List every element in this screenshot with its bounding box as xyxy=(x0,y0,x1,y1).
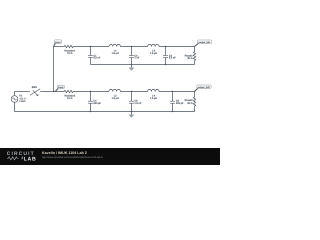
svg-text:2.2 nF: 2.2 nF xyxy=(169,57,176,60)
svg-text:output_lpf1: output_lpf1 xyxy=(198,41,210,43)
resistor Rload1 50 Ohm xyxy=(193,52,195,61)
svg-text:C4: C4 xyxy=(93,99,96,102)
capacitor C2 1 nF xyxy=(131,47,133,56)
wire xyxy=(41,91,64,93)
node dot xyxy=(165,46,166,47)
svg-text:output_lpf2: output_lpf2 xyxy=(198,86,210,88)
capacitor C5 1.5 nF xyxy=(131,92,133,102)
svg-text:2.2 nF: 2.2 nF xyxy=(93,57,100,60)
footer bar xyxy=(0,148,220,165)
wire xyxy=(15,91,29,93)
wire xyxy=(54,46,65,48)
wire xyxy=(194,61,196,65)
inductor L4 1.5 uH xyxy=(148,89,159,91)
svg-text:1.5 µH: 1.5 µH xyxy=(150,97,157,100)
svg-text:1.5 nF: 1.5 nF xyxy=(134,102,141,105)
svg-text:C5: C5 xyxy=(134,99,137,102)
svg-text:Rload2: Rload2 xyxy=(185,99,193,102)
capacitor C1 2.2 nF xyxy=(90,47,92,56)
wire xyxy=(194,47,196,52)
wire xyxy=(120,91,147,93)
svg-text:CIRCUIT: CIRCUIT xyxy=(7,151,35,157)
node dot xyxy=(90,46,91,47)
node flag input (row 1) xyxy=(54,43,56,47)
CircuitLab logo: resistor zigzag xyxy=(7,157,18,160)
svg-text:10 Ω: 10 Ω xyxy=(67,97,72,100)
svg-text:LAB: LAB xyxy=(24,156,37,162)
node dot xyxy=(165,64,166,65)
resistor Resistor1 10 Ohm xyxy=(64,45,73,47)
svg-text:50 Ω: 50 Ω xyxy=(187,102,192,105)
wire xyxy=(120,46,147,48)
wire xyxy=(14,102,16,111)
svg-text:1.5 µH: 1.5 µH xyxy=(112,97,119,100)
wire xyxy=(14,92,16,96)
CircuitLab logo: bolt mark xyxy=(21,157,23,160)
wire xyxy=(194,92,196,98)
ground (row 2) xyxy=(131,112,133,115)
svg-text:input: input xyxy=(55,41,61,43)
node dot xyxy=(172,91,173,92)
inductor L3 1.5 uH xyxy=(109,89,120,91)
wire: input link line between rows xyxy=(53,47,55,92)
svg-text:1 kHz: 1 kHz xyxy=(19,100,25,103)
capacitor C4 220 pF xyxy=(90,92,92,102)
node flag input (row 2) xyxy=(55,88,58,91)
svg-text:220 pF: 220 pF xyxy=(176,102,184,105)
svg-text:220 pF: 220 pF xyxy=(93,102,101,105)
svg-text:V1: V1 xyxy=(19,95,22,98)
wire xyxy=(73,91,109,93)
inductor L2 1.5 uH xyxy=(148,44,159,46)
wire: row2 ground rail xyxy=(15,111,195,113)
node dot xyxy=(172,111,173,112)
node flag output2 (row 2) xyxy=(195,88,199,91)
svg-text:SW1: SW1 xyxy=(32,86,37,89)
wire xyxy=(159,46,195,48)
switch SW1 xyxy=(29,91,30,92)
svg-text:10 Ω: 10 Ω xyxy=(67,52,72,55)
svg-text:50 Ω: 50 Ω xyxy=(187,57,192,60)
resistor Resistor2 10 Ohm xyxy=(64,90,73,92)
node dot xyxy=(131,64,132,65)
wire xyxy=(159,91,195,93)
svg-text:1 nF: 1 nF xyxy=(134,57,139,60)
resistor Rload2 50 Ohm xyxy=(193,97,195,106)
node dot xyxy=(90,91,91,92)
svg-text:1.5 µH: 1.5 µH xyxy=(112,52,119,55)
inductor L1 1.5 uH xyxy=(109,44,120,46)
wire xyxy=(73,46,109,48)
svg-text:input: input xyxy=(58,86,64,88)
capacitor C6 220 pF xyxy=(172,92,174,102)
node dot (input junction) xyxy=(53,91,54,92)
svg-text:Rload1: Rload1 xyxy=(185,55,193,58)
svg-text:-1/1 V: -1/1 V xyxy=(19,97,25,100)
capacitor C3 2.2 nF xyxy=(165,47,167,56)
wire xyxy=(194,106,196,111)
svg-text:Kavelin / IMUK 1104 Lab 2: Kavelin / IMUK 1104 Lab 2 xyxy=(42,151,87,155)
wire: row1 ground rail xyxy=(91,64,195,66)
svg-text:http://www.circuitlab.com/circ: http://www.circuitlab.com/circuit/4hm3k2… xyxy=(42,156,103,159)
node dot xyxy=(131,91,132,92)
node dot xyxy=(131,46,132,47)
voltage source V1 AC 1 kHz xyxy=(11,96,18,103)
svg-text:1.5 µH: 1.5 µH xyxy=(150,52,157,55)
node dot xyxy=(90,111,91,112)
node dot xyxy=(131,111,132,112)
ground (row 1) xyxy=(131,65,133,68)
svg-text:C6: C6 xyxy=(176,99,179,102)
node flag output1 (row 1) xyxy=(195,43,199,46)
